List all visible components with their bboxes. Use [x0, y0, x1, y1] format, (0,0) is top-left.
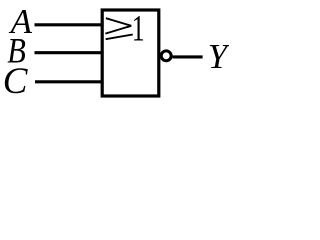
wire input A — [35, 23, 104, 26]
gate qualifier digit 1 — [132, 8, 145, 48]
svg-text:1: 1 — [132, 8, 145, 48]
svg-text:Y: Y — [208, 37, 229, 76]
svg-text:C: C — [3, 61, 29, 102]
gate qualifier symbol &#8805; (drawn strokes) — [105, 18, 132, 39]
wire input C — [35, 80, 103, 83]
input label B — [7, 31, 26, 71]
inversion bubble — [161, 51, 171, 61]
OR gate U1 body (IEC rectangle) — [102, 10, 159, 96]
wire output Y — [173, 55, 203, 58]
wire input B — [35, 51, 104, 54]
